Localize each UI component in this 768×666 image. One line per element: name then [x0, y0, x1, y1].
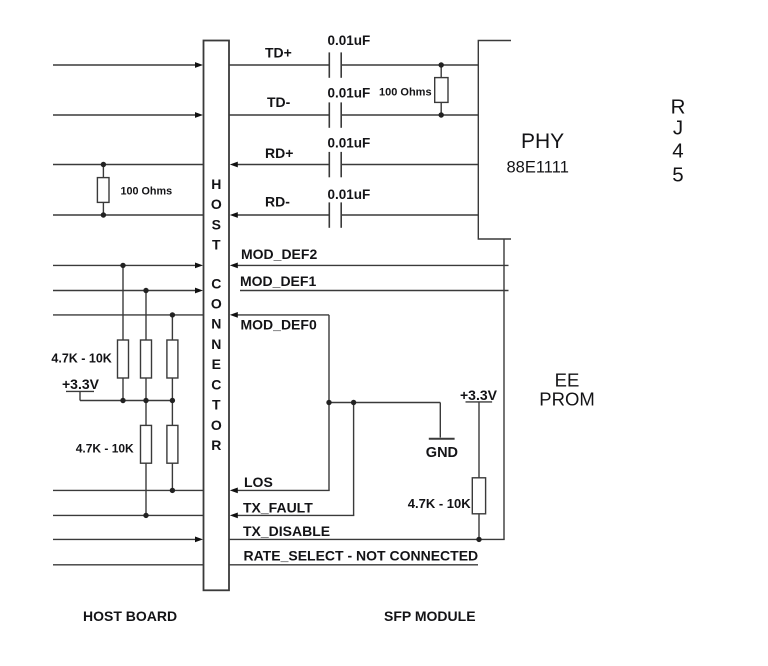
node junction bus/TX_FAULT drop — [351, 400, 356, 405]
svg-text:+3.3V: +3.3V — [62, 376, 100, 392]
svg-text:4.7K - 10K: 4.7K - 10K — [408, 496, 471, 511]
wire resistor R8 bottom to TX_DISABLE — [478, 514, 480, 540]
resistor R8 4.7K-10K EEPROM pullup — [472, 478, 485, 514]
svg-text:0.01uF: 0.01uF — [328, 136, 371, 151]
svg-text:SFP MODULE: SFP MODULE — [384, 608, 476, 624]
svg-text:J: J — [673, 116, 683, 139]
wire pullup R3 bottom lead — [122, 378, 124, 401]
node junction RD-/R1 — [101, 212, 106, 217]
wire LOS right — [236, 489, 330, 491]
node junction MOD_DEF1/R4 — [143, 288, 148, 293]
wire TD+ connector to capacitor C1 — [229, 64, 329, 66]
wire pullup R5 bottom lead — [171, 378, 173, 401]
svg-text:TX_DISABLE: TX_DISABLE — [243, 523, 330, 539]
node junction MOD_DEF0/R5 — [170, 312, 175, 317]
svg-text:5: 5 — [672, 163, 683, 186]
node junction RD+/R1 — [101, 162, 106, 167]
wire MOD_DEF2 left stub — [53, 264, 196, 266]
wire RD+ capacitor C3 to PHY — [342, 164, 479, 166]
wire RD- capacitor C4 to PHY — [342, 214, 479, 216]
wire vertical to TX_FAULT — [353, 403, 355, 516]
svg-text:MOD_DEF0: MOD_DEF0 — [241, 317, 317, 333]
wire MOD_DEF1 right — [240, 290, 509, 292]
resistor R4 pullup — [141, 340, 152, 378]
wire LOS left stub — [53, 489, 203, 491]
wire pulldown R6 bottom lead to TX_FAULT — [145, 463, 147, 515]
wire RD- connector to capacitor C4 — [236, 214, 329, 216]
svg-text:TD+: TD+ — [265, 45, 292, 61]
wire RD- left stub — [53, 214, 203, 216]
svg-text:0.01uF: 0.01uF — [328, 187, 371, 202]
svg-text:N: N — [211, 336, 221, 352]
wire MOD_DEF2 right — [236, 264, 509, 266]
wire MOD_DEF0 right horizontal — [236, 314, 329, 316]
arrow MOD_DEF0 into connector right — [230, 312, 238, 318]
svg-text:R: R — [671, 95, 686, 118]
wire PHY to EEPROM vertical — [503, 239, 505, 539]
svg-text:T: T — [212, 237, 221, 253]
svg-text:R: R — [211, 437, 221, 453]
svg-text:PROM: PROM — [539, 389, 595, 410]
arrow MOD_DEF2 into connector left — [195, 263, 203, 269]
wire pullup R3 top lead — [122, 265, 124, 340]
svg-text:N: N — [211, 316, 221, 332]
wire TX_FAULT left stub — [53, 514, 203, 516]
node junction rail/R5 — [170, 398, 175, 403]
arrow MOD_DEF1 into connector left — [195, 288, 203, 294]
svg-text:RD+: RD+ — [265, 145, 293, 161]
wire TD- capacitor C2 to PHY — [342, 114, 479, 116]
wire RATE_SELECT left stub — [53, 564, 203, 566]
node junction R7/LOS — [170, 488, 175, 493]
wire RD+ left stub — [53, 164, 203, 166]
resistor R5 pullup — [167, 340, 178, 378]
node junction R8/TX_DISABLE — [476, 537, 481, 542]
wire RATE_SELECT right — [229, 564, 478, 566]
svg-text:LOS: LOS — [244, 474, 273, 490]
svg-text:RD-: RD- — [265, 194, 290, 210]
wire TD+ capacitor C1 to PHY — [342, 64, 479, 66]
capacitor C2 0.01uF TD- — [329, 102, 341, 127]
node junction MOD_DEF0 bus — [326, 400, 331, 405]
wire +3.3V rail left — [80, 400, 172, 402]
svg-text:4.7K - 10K: 4.7K - 10K — [76, 442, 134, 456]
wire node bus y=402.5 — [329, 402, 440, 404]
svg-text:GND: GND — [426, 445, 458, 461]
svg-text:O: O — [211, 296, 222, 312]
svg-text:TD-: TD- — [267, 94, 291, 110]
wire TX_FAULT right — [236, 514, 354, 516]
svg-text:100 Ohms: 100 Ohms — [379, 87, 432, 99]
arrow MOD_DEF2 into connector right — [230, 263, 238, 269]
wire TX_DISABLE right — [229, 538, 505, 540]
wire TD- left stub — [53, 114, 196, 116]
wire RD+ to resistor R1 top — [102, 165, 104, 178]
svg-text:PHY: PHY — [521, 130, 564, 153]
svg-text:RATE_SELECT - NOT CONNECTED: RATE_SELECT - NOT CONNECTED — [244, 547, 479, 563]
resistor R2 100 Ohms right — [435, 78, 448, 103]
node junction rail/R4 — [143, 398, 148, 403]
capacitor C3 0.01uF RD+ — [329, 152, 341, 177]
wire TD+ left stub — [53, 64, 196, 66]
resistor R1 100 Ohms left — [97, 178, 109, 203]
svg-text:O: O — [211, 196, 222, 212]
arrow RD- into connector — [230, 212, 238, 218]
power +3.3V underline right — [466, 401, 493, 403]
wire pullup R4 bottom lead — [145, 378, 147, 401]
svg-text:C: C — [211, 275, 221, 291]
wire MOD_DEF1 left stub — [53, 290, 196, 292]
svg-text:4.7K - 10K: 4.7K - 10K — [51, 352, 111, 366]
svg-text:HOST BOARD: HOST BOARD — [83, 608, 177, 624]
wire TD- connector to capacitor C2 — [229, 114, 329, 116]
arrow TX_DISABLE into connector — [195, 537, 203, 543]
node junction R6/TX_FAULT — [143, 513, 148, 518]
wire +3.3V to resistor R8 — [478, 402, 480, 478]
node junction MOD_DEF2/R3 — [120, 263, 125, 268]
svg-text:MOD_DEF2: MOD_DEF2 — [241, 246, 317, 262]
svg-text:0.01uF: 0.01uF — [328, 33, 371, 48]
capacitor C4 0.01uF RD- — [329, 202, 341, 227]
arrow LOS into connector — [230, 488, 238, 494]
IC U1 PHY box outline — [478, 41, 511, 240]
svg-text:T: T — [212, 397, 221, 413]
wire +3.3V symbol drop left — [79, 391, 81, 400]
svg-text:C: C — [211, 376, 221, 392]
svg-text:100 Ohms: 100 Ohms — [121, 186, 173, 198]
svg-text:E: E — [212, 356, 221, 372]
svg-text:S: S — [212, 216, 221, 232]
node junction rail/R3 — [120, 398, 125, 403]
capacitor C1 0.01uF TD+ — [329, 52, 341, 77]
arrow TD- into connector — [195, 112, 203, 118]
resistor R3 pullup — [118, 340, 129, 378]
resistor R6 pulldown — [141, 425, 152, 463]
arrow RD+ into connector — [230, 162, 238, 168]
svg-text:H: H — [211, 176, 221, 192]
wire MOD_DEF0 left stub — [53, 314, 203, 316]
connector J1 HOST CONNECTOR box — [204, 41, 230, 591]
wire TX_DISABLE left stub — [53, 538, 196, 540]
wire resistor R2 bottom to TD- — [440, 102, 442, 115]
wire pulldown R7 bottom lead to LOS — [171, 463, 173, 490]
wire TD+ to resistor R2 top — [440, 65, 442, 78]
node junction TD+/R2 — [439, 62, 444, 67]
resistor R7 pulldown — [167, 425, 178, 463]
wire RD+ connector to capacitor C3 — [236, 164, 329, 166]
svg-text:0.01uF: 0.01uF — [328, 86, 371, 101]
wire pulldown R6 top lead — [145, 401, 147, 426]
svg-text:TX_FAULT: TX_FAULT — [243, 500, 313, 516]
wire pullup R5 top lead — [171, 315, 173, 340]
svg-text:O: O — [211, 417, 222, 433]
wire GND drop — [439, 403, 441, 438]
svg-text:+3.3V: +3.3V — [460, 387, 498, 403]
svg-text:EE: EE — [555, 370, 580, 391]
arrow TD+ into connector — [195, 62, 203, 68]
wire resistor R1 bottom to RD- — [102, 202, 104, 215]
wire pulldown R7 top lead — [171, 401, 173, 426]
svg-text:4: 4 — [672, 140, 683, 163]
svg-text:88E1111: 88E1111 — [507, 159, 569, 177]
power +3.3V underline left — [66, 390, 94, 392]
svg-text:MOD_DEF1: MOD_DEF1 — [240, 273, 316, 289]
wire pullup R4 top lead — [145, 291, 147, 341]
ground GND symbol bar — [429, 438, 455, 440]
node junction TD-/R2 — [439, 112, 444, 117]
wire MOD_DEF0 vertical drop — [328, 315, 330, 491]
arrow TX_FAULT into connector — [230, 513, 238, 519]
